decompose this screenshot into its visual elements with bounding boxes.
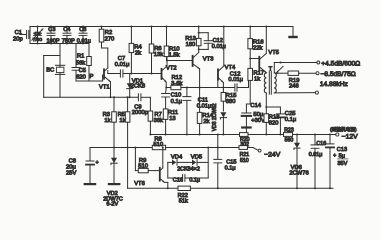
- capacitor C2: [32, 26, 43, 45]
- svg-text:620: 620: [76, 75, 86, 81]
- label C5 620P: [76, 68, 93, 81]
- svg-text:0.1μ: 0.1μ: [285, 117, 296, 123]
- terminal out1: [317, 61, 320, 64]
- label VD6 2CW76: [289, 165, 308, 177]
- resistor R8: [152, 145, 165, 149]
- wire output2 right: [299, 72, 316, 74]
- svg-text:180: 180: [186, 42, 196, 48]
- label VD1 2CK8: [131, 78, 146, 89]
- svg-text:+: +: [333, 153, 336, 159]
- svg-text:13: 13: [169, 116, 175, 122]
- transistor VT6: [160, 147, 169, 190]
- svg-text:VD5: VD5: [191, 154, 202, 160]
- wire bottom rail left: [128, 187, 178, 189]
- label C2 7/60: [33, 31, 43, 43]
- diode VD5: [192, 160, 197, 166]
- label VD4: [171, 154, 183, 160]
- capacitor C12a: [199, 33, 213, 50]
- label R7 36k: [154, 112, 163, 124]
- svg-text:R5: R5: [118, 112, 125, 118]
- capacitor C9: [138, 94, 141, 101]
- svg-text:1.5k: 1.5k: [169, 53, 180, 59]
- resistor R20: [240, 133, 249, 137]
- label C16 0.1u: [173, 177, 200, 183]
- wire bottom rail right: [190, 187, 333, 189]
- wire output3: [274, 92, 315, 94]
- svg-text:680: 680: [226, 99, 236, 105]
- terminal -12V: [336, 133, 339, 136]
- capacitor C7: [120, 70, 131, 77]
- svg-text:2k: 2k: [203, 119, 209, 125]
- svg-text:R16: R16: [253, 39, 264, 45]
- capacitor C6: [79, 26, 87, 45]
- svg-text:P: P: [90, 74, 94, 80]
- zener VD6: [294, 134, 300, 190]
- wire to -24V: [248, 148, 259, 151]
- svg-text:56k: 56k: [76, 60, 85, 66]
- label R3 1k: [103, 112, 111, 124]
- label R11 13: [168, 110, 178, 122]
- svg-text:+30V: +30V: [251, 118, 265, 124]
- svg-text:2CW76: 2CW76: [289, 171, 308, 177]
- terminal out3: [315, 91, 318, 94]
- capacitor C16b: [311, 134, 319, 190]
- label R13 180: [185, 36, 196, 48]
- svg-text:2k: 2k: [135, 51, 141, 57]
- label C1 20p: [13, 30, 23, 43]
- label R23 560: [284, 128, 294, 144]
- svg-text:R1: R1: [77, 54, 84, 60]
- svg-text:T: T: [269, 66, 273, 72]
- svg-text:C15: C15: [226, 159, 236, 165]
- label VD3 2CW62: [212, 103, 218, 131]
- label R19 246: [289, 78, 300, 90]
- label R12 3-6k: [171, 75, 182, 87]
- label R18 820: [269, 115, 280, 127]
- resistor R21: [239, 146, 248, 150]
- svg-text:C2: C2: [34, 31, 41, 37]
- label C10 0.1u: [171, 93, 182, 105]
- svg-text:0.1μ: 0.1μ: [171, 99, 182, 105]
- resistor R22: [178, 186, 190, 190]
- svg-text:C6: C6: [79, 27, 86, 33]
- wire output2 left: [277, 72, 288, 74]
- svg-text:R6: R6: [154, 46, 161, 52]
- svg-text:−12V: −12V: [342, 134, 359, 141]
- resistor R2: [99, 26, 108, 49]
- label R4 2k: [134, 44, 142, 56]
- resistor R11: [163, 109, 168, 136]
- svg-text:51k: 51k: [179, 199, 188, 205]
- svg-text:VT6: VT6: [134, 181, 145, 187]
- svg-text:1k: 1k: [104, 118, 110, 124]
- capacitor C3: [47, 26, 55, 45]
- label R22 51k: [178, 193, 188, 205]
- diode VD1: [127, 74, 133, 99]
- label C15 0.1u: [225, 159, 237, 171]
- label 14.88kHz: [320, 81, 348, 88]
- diode VD4: [172, 160, 177, 166]
- label R17 1k: [253, 70, 264, 82]
- wire node A to VT2 base: [131, 73, 161, 75]
- wire loop bottom left: [168, 177, 182, 179]
- label chinese note: [330, 126, 357, 133]
- label C16b 0.01u: [309, 141, 326, 158]
- svg-text:R23: R23: [284, 128, 294, 134]
- svg-text:C13: C13: [337, 147, 347, 153]
- wire R9 to VT6: [148, 170, 160, 172]
- resistor R17: [248, 68, 253, 104]
- label -8.5dB/75: [321, 71, 356, 78]
- wire C: [90, 147, 152, 149]
- crystal BC: [55, 65, 64, 74]
- svg-text:C1: C1: [15, 30, 22, 36]
- svg-text:14.88kHz: 14.88kHz: [320, 81, 348, 88]
- svg-text:R10: R10: [169, 46, 180, 52]
- svg-text:R17: R17: [253, 70, 264, 76]
- wire top supply rail: [30, 26, 293, 28]
- wire right rail drop: [292, 27, 294, 36]
- svg-text:820: 820: [269, 120, 279, 126]
- label VD5: [191, 154, 202, 160]
- label R21 510: [240, 152, 250, 164]
- resistor R16: [248, 26, 253, 69]
- svg-text:VT4: VT4: [225, 65, 236, 71]
- wire crystal branch bottom: [59, 74, 61, 97]
- label R10 1.5k: [169, 46, 180, 58]
- svg-text:2CK84×2: 2CK84×2: [177, 166, 200, 172]
- svg-text:36k: 36k: [154, 118, 163, 124]
- svg-text:BC: BC: [46, 67, 54, 73]
- label R6 13k: [154, 46, 163, 58]
- svg-text:VD4: VD4: [171, 154, 183, 160]
- capacitor C4: [63, 26, 71, 45]
- label VT4: [225, 65, 236, 71]
- label C13 5u 35V: [333, 147, 348, 167]
- wire primary bottom: [265, 93, 267, 108]
- resistor R23: [284, 133, 293, 137]
- transistor VT2: [162, 57, 168, 89]
- svg-text:C10: C10: [171, 93, 182, 99]
- svg-text:−8.5dB/75Ω: −8.5dB/75Ω: [321, 71, 356, 78]
- svg-text:750P: 750P: [62, 39, 75, 45]
- label VT2: [166, 66, 177, 72]
- svg-text:R3: R3: [103, 112, 110, 118]
- label R1 56k: [76, 54, 85, 67]
- label C14 50u 30V: [250, 103, 265, 124]
- label C11 0.01u: [197, 97, 212, 109]
- wire left rail join: [29, 27, 31, 44]
- wire VT3 base feed: [166, 60, 193, 62]
- label -24V: [264, 151, 281, 158]
- svg-text:510: 510: [153, 142, 163, 148]
- label 2CK84x2: [177, 166, 200, 172]
- resistor R5: [125, 96, 130, 188]
- capacitor C8: [86, 148, 94, 184]
- capacitor C25: [266, 107, 284, 136]
- label R9 510: [138, 158, 148, 170]
- label C4 750P: [62, 27, 75, 44]
- svg-text:100P: 100P: [47, 39, 60, 45]
- resistor R13: [196, 26, 201, 51]
- label BC: [46, 67, 54, 73]
- capacitor C16: [183, 175, 185, 182]
- wire between diodes: [178, 161, 192, 163]
- label VT6: [134, 181, 145, 187]
- wire loop left: [168, 162, 172, 178]
- svg-text:25V: 25V: [66, 170, 76, 176]
- svg-text:−24V: −24V: [264, 151, 281, 158]
- svg-text:22k: 22k: [253, 46, 262, 52]
- svg-text:510: 510: [240, 158, 249, 164]
- svg-text:2000p: 2000p: [132, 110, 148, 116]
- svg-text:R2: R2: [105, 30, 112, 36]
- svg-text:20p: 20p: [13, 37, 23, 43]
- svg-text:510: 510: [138, 164, 148, 170]
- label R16 22k: [253, 39, 264, 51]
- resistor R19: [288, 71, 299, 75]
- svg-text:C16: C16: [173, 177, 183, 183]
- wire C9 to R7: [141, 97, 150, 111]
- wire second rail: [30, 43, 89, 45]
- svg-text:+: +: [96, 160, 99, 166]
- resistor R14: [197, 88, 202, 136]
- capacitor C10: [162, 88, 170, 109]
- wire R9 branch: [134, 147, 138, 171]
- capacitor C12: [235, 80, 249, 91]
- resistor R4: [129, 26, 134, 75]
- transistor VT3: [193, 49, 201, 88]
- label C6 0.01μ: [77, 27, 91, 44]
- capacitor C13: [326, 134, 334, 190]
- svg-text:7/60: 7/60: [33, 37, 43, 43]
- svg-text:VT3: VT3: [203, 57, 214, 63]
- wire VT1 collector out: [108, 73, 120, 75]
- label C3 100P: [47, 27, 60, 44]
- resistor R10: [164, 26, 169, 61]
- svg-text:1k: 1k: [254, 77, 260, 83]
- label VT3: [203, 57, 214, 63]
- svg-text:0.1μ: 0.1μ: [225, 166, 236, 172]
- svg-text:VT1: VT1: [99, 85, 110, 91]
- svg-text:C3: C3: [48, 27, 55, 33]
- terminal out2: [316, 72, 319, 75]
- svg-text:C7: C7: [118, 56, 125, 62]
- terminal -24V: [258, 149, 261, 152]
- label VD2 2DW7C 6.2V: [103, 191, 123, 208]
- zener VD3: [220, 112, 226, 135]
- label +4.5dB/600: [321, 60, 360, 67]
- svg-text:1k: 1k: [119, 118, 125, 124]
- transistor VT1: [104, 48, 111, 97]
- resistor R1: [87, 44, 92, 82]
- label R5 1k: [118, 112, 126, 124]
- label R8 510: [153, 136, 163, 148]
- zener VD2: [111, 148, 117, 184]
- svg-text:R4: R4: [134, 44, 142, 50]
- label C12 0.01u: [228, 71, 243, 83]
- tap arrow: [276, 66, 283, 74]
- svg-text:C14: C14: [250, 103, 261, 109]
- label VT5: [268, 50, 279, 56]
- svg-text:35V: 35V: [337, 161, 347, 167]
- resistor R9: [138, 168, 148, 172]
- svg-text:560: 560: [285, 138, 294, 144]
- svg-text:VT5: VT5: [268, 50, 279, 56]
- label C7 0.01u: [115, 56, 130, 68]
- label C25 0.1u: [285, 111, 296, 123]
- svg-text:C16: C16: [316, 141, 326, 147]
- label R15 680: [226, 93, 237, 105]
- svg-text:0.01μ: 0.01μ: [309, 152, 323, 158]
- resistor R3: [112, 96, 117, 148]
- ground top-right: [288, 36, 297, 38]
- svg-text:VD3 2CW62: VD3 2CW62: [212, 103, 218, 131]
- label -12V: [342, 134, 359, 141]
- svg-text:270: 270: [105, 37, 115, 43]
- label C8 20u 25V: [66, 159, 99, 177]
- wire loop bottom right: [185, 177, 208, 179]
- wire output1: [274, 62, 317, 73]
- wire crystal loop: [44, 56, 60, 98]
- capacitor C1: [20, 31, 30, 39]
- transformer T: [264, 71, 276, 94]
- svg-text:0.01μ: 0.01μ: [115, 62, 130, 68]
- svg-text:13k: 13k: [154, 52, 163, 58]
- svg-text:5μ: 5μ: [339, 153, 345, 159]
- svg-text:C5: C5: [79, 68, 86, 74]
- resistor R12: [166, 85, 234, 89]
- wire bus: [150, 134, 335, 136]
- svg-text:C4: C4: [63, 27, 70, 33]
- capacitor C14: [242, 104, 251, 135]
- wire VT1 base: [76, 75, 104, 81]
- wire crystal branch top: [59, 44, 61, 66]
- label C9 2000p: [132, 104, 148, 115]
- resistor R6: [149, 26, 154, 75]
- resistor R7: [148, 111, 153, 136]
- resistor R15: [221, 93, 226, 112]
- svg-text:246: 246: [289, 83, 299, 89]
- svg-text:0.01μ: 0.01μ: [228, 77, 243, 83]
- transistor VT5: [250, 26, 267, 73]
- capacitor C11: [183, 87, 191, 136]
- wire loop right top: [198, 147, 210, 179]
- svg-text:(到整机电源): (到整机电源): [330, 126, 357, 133]
- ground VD2: [108, 183, 121, 185]
- wire D: [44, 96, 138, 98]
- svg-text:6-2V: 6-2V: [106, 202, 118, 206]
- label R2 270: [105, 30, 115, 43]
- svg-text:VT2: VT2: [166, 66, 177, 72]
- wire C right: [166, 147, 239, 149]
- transistor VT4: [218, 26, 225, 93]
- label C12a 0.01u: [212, 38, 226, 50]
- capacitor C15: [214, 134, 222, 190]
- label T: [269, 66, 273, 72]
- label VT1: [99, 85, 110, 91]
- resistor R18: [264, 107, 269, 136]
- svg-text:+4.5dB/600Ω: +4.5dB/600Ω: [321, 60, 360, 67]
- svg-text:3-6k: 3-6k: [171, 81, 182, 87]
- svg-text:0.01μ: 0.01μ: [197, 104, 212, 110]
- capacitor C5: [72, 44, 80, 82]
- ground C8: [84, 183, 97, 185]
- label R14 2k: [202, 113, 213, 125]
- label R20 302: [240, 137, 250, 148]
- svg-text:2CK8: 2CK8: [131, 84, 146, 90]
